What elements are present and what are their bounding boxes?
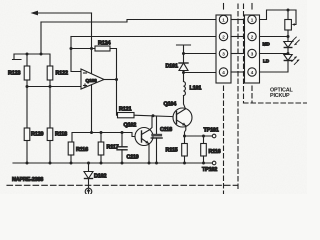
node dot V2 junction (40, 53, 43, 56)
wire LD cathode to pin 4 (260, 61, 289, 73)
svg-text:2: 2 (251, 34, 254, 39)
wire Q102 collector up to node (150, 116, 153, 130)
wire D101 anode to pin 4 (182, 71, 216, 75)
svg-text:1: 1 (251, 17, 254, 22)
svg-text:2: 2 (222, 34, 225, 39)
wire VR to MD node (287, 30, 289, 42)
diode D101 (166, 54, 189, 71)
transistor Q102 (124, 123, 154, 146)
svg-text:R116: R116 (76, 147, 88, 153)
connector J2 pickup side (245, 15, 260, 83)
node dot inverting/feedback (70, 47, 73, 50)
laser diode LD (263, 55, 292, 64)
resistor R116b (201, 136, 221, 163)
svg-text:R124: R124 (98, 41, 110, 47)
svg-text:4: 4 (222, 70, 225, 75)
svg-text:LD: LD (263, 59, 270, 64)
tick above connector J2 (251, 4, 253, 10)
tick above connector J1 (223, 4, 225, 10)
capacitor C118 (151, 116, 172, 163)
connector J2 pin numbers (251, 17, 254, 75)
svg-text:TP102: TP102 (202, 167, 217, 173)
dashed line below J2 (251, 86, 253, 103)
wire pin3 to LD node (260, 53, 289, 55)
node dot Q104 base (152, 114, 155, 117)
svg-text:PICKUP: PICKUP (270, 93, 290, 99)
svg-text:R120: R120 (31, 132, 43, 138)
wire pin2 to MD node (260, 36, 289, 38)
node dot R123 top (26, 53, 29, 56)
test point TP102 (202, 161, 217, 173)
test point TP101 (204, 128, 219, 138)
node dot output (115, 78, 118, 81)
wire pin1 to pickup VR (260, 10, 297, 20)
svg-text:R123: R123 (8, 71, 20, 77)
connector J1 board side (216, 15, 231, 83)
svg-text:1: 1 (222, 17, 225, 22)
wire W2 to connector pin 1 (41, 20, 216, 23)
svg-text:Q103: Q103 (86, 78, 98, 83)
svg-text:MD: MD (263, 42, 271, 47)
resistor R115 (166, 136, 188, 163)
rail Y132 base network (72, 133, 135, 143)
optical pickup dashed boundary (244, 4, 308, 103)
svg-text:R121: R121 (119, 107, 131, 113)
wire down to op-amp minus input (71, 49, 81, 72)
node dot V1 bottom (90, 131, 93, 134)
emitter rail to TP101 (185, 135, 213, 137)
supply stub bar above D101 (177, 45, 191, 54)
wire Q104 collector to L101 (184, 96, 186, 109)
wire D101 node to pin 3 (184, 53, 217, 55)
node dot R117 top (100, 131, 103, 134)
rail Y86 to plus input (27, 86, 81, 88)
wire Q104 emitter down (185, 126, 186, 136)
resistor R124 (95, 41, 110, 52)
node dot R123 bottom (26, 85, 29, 88)
node dot LD (287, 52, 290, 55)
op-amp Q103 (81, 69, 104, 89)
svg-text:NAPRE-2386: NAPRE-2386 (12, 177, 43, 183)
diode D102 (84, 163, 106, 188)
wire inverting node horizontal (71, 48, 95, 50)
transistor Q104 (164, 102, 193, 128)
capacitor C119 (117, 133, 139, 164)
LD light arrows (292, 56, 300, 64)
resistor R120 (24, 87, 43, 164)
wire V2 down from W2 to input rail (40, 22, 42, 54)
svg-text:R118: R118 (55, 132, 67, 138)
svg-text:C118: C118 (160, 127, 172, 133)
wire W3 to connector pin 2 (71, 36, 216, 38)
svg-text:C119: C119 (127, 155, 139, 161)
wire MD cathode to LD node (287, 48, 289, 55)
wire V1 vertical from W1 down to lower rail (91, 13, 93, 133)
svg-text:Q102: Q102 (124, 123, 137, 129)
variable resistor VR pickup (285, 10, 296, 30)
wire op-amp output (104, 79, 117, 81)
wire V3 from W3 down to inverting node (70, 37, 72, 49)
resistor R118 (47, 87, 67, 164)
node dots on ground rail (26, 162, 206, 165)
svg-text:R122: R122 (56, 71, 68, 77)
svg-text:TP101: TP101 (204, 128, 219, 134)
ground rail Y163 (13, 162, 212, 164)
resistor R117 (98, 133, 118, 164)
node dot C119 top (121, 131, 124, 134)
wire R124 right to output vertical (110, 49, 118, 116)
dashed line below J1 (223, 86, 225, 194)
svg-text:3: 3 (251, 51, 254, 56)
board bottom dashed line (7, 184, 237, 186)
svg-text:R115: R115 (166, 148, 178, 154)
node dot VR top (287, 9, 290, 12)
svg-text:Q104: Q104 (164, 102, 177, 108)
MD light arrows (291, 37, 299, 45)
optical pickup label (270, 88, 293, 100)
node dot R122 bottom (49, 85, 52, 88)
photodiode MD (263, 42, 293, 48)
svg-text:4: 4 (251, 70, 254, 75)
svg-text:3: 3 (222, 51, 225, 56)
wire Q102 emitter to ground (148, 144, 150, 163)
node dot MD (287, 35, 290, 38)
resistor R116 (68, 142, 88, 163)
input rail Y54 (14, 53, 50, 55)
inductor L101 (184, 73, 202, 96)
resistor R123 (8, 54, 30, 87)
svg-text:R116: R116 (209, 149, 221, 155)
wire W1 output line with arrow (31, 11, 92, 16)
node dot emitter (183, 135, 186, 138)
off-page circle symbol (85, 188, 92, 195)
resistor R121 (118, 107, 135, 118)
inter-connector wires (231, 20, 245, 73)
svg-text:D101: D101 (166, 64, 178, 70)
svg-text:L101: L101 (190, 86, 202, 92)
wire R121 to Q104 base (134, 115, 173, 116)
node dot D101 top (182, 52, 185, 55)
input rail stub symbol (13, 54, 22, 60)
svg-text:D102: D102 (94, 174, 106, 180)
node dot R116b top (202, 135, 205, 138)
connector J1 pin numbers (222, 17, 225, 75)
main board dashed boundary (237, 4, 239, 190)
resistor R122 (47, 54, 68, 87)
node dot V1 crossing (90, 47, 93, 50)
